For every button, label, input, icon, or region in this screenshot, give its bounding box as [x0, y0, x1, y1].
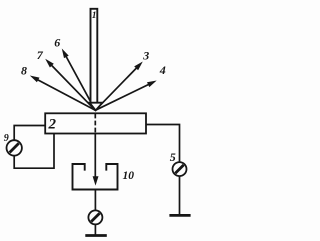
svg-text:2: 2 — [48, 117, 57, 133]
svg-text:4: 4 — [159, 63, 166, 77]
svg-text:8: 8 — [21, 64, 27, 78]
svg-text:6: 6 — [54, 35, 60, 49]
svg-text:7: 7 — [37, 48, 44, 62]
svg-text:5: 5 — [170, 150, 176, 164]
svg-text:3: 3 — [142, 49, 149, 63]
svg-text:1: 1 — [92, 11, 97, 21]
svg-text:10: 10 — [123, 170, 135, 182]
svg-text:9: 9 — [4, 133, 9, 144]
